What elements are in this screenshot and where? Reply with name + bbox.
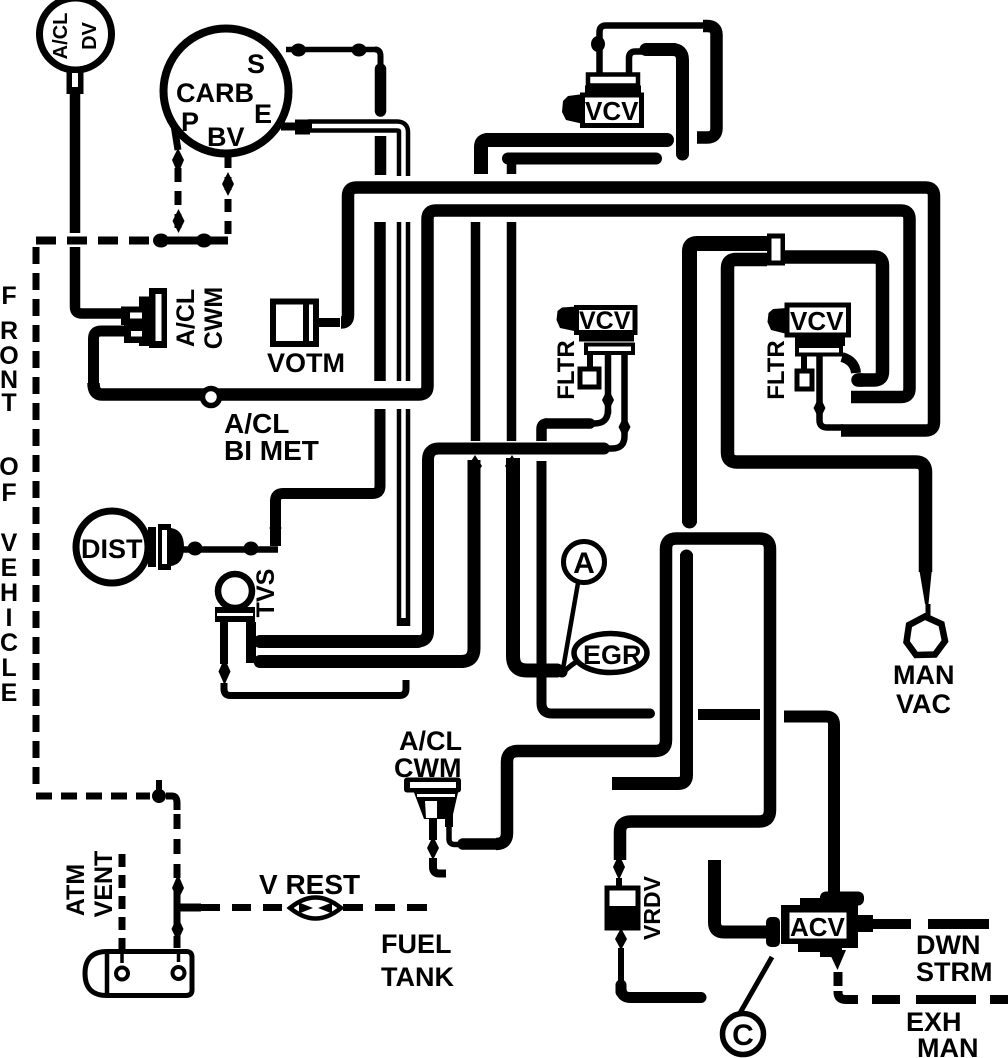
svg-text:A/CL: A/CL [399, 726, 462, 756]
svg-text:H: H [0, 579, 18, 607]
svg-text:E: E [1, 554, 18, 582]
svg-text:VRDV: VRDV [639, 875, 665, 940]
svg-text:O: O [0, 453, 19, 481]
svg-text:ACV: ACV [790, 912, 846, 942]
svg-text:A/CL: A/CL [50, 13, 72, 60]
svg-text:I: I [6, 604, 13, 632]
svg-text:VCV: VCV [790, 306, 844, 336]
svg-text:MAN: MAN [893, 660, 955, 690]
svg-text:F: F [1, 479, 16, 507]
svg-text:VCV: VCV [585, 96, 639, 126]
svg-text:V REST: V REST [259, 869, 360, 900]
svg-text:VAC: VAC [896, 689, 951, 719]
svg-text:FLTR: FLTR [763, 340, 790, 400]
svg-text:EGR: EGR [583, 640, 642, 670]
svg-text:C: C [732, 1019, 754, 1052]
svg-text:CARB: CARB [176, 78, 254, 108]
svg-text:V: V [1, 529, 18, 557]
svg-text:S: S [247, 49, 265, 79]
svg-text:CWM: CWM [200, 287, 228, 349]
svg-text:MAN: MAN [917, 1033, 979, 1058]
svg-text:E: E [1, 679, 18, 707]
svg-text:FUEL: FUEL [381, 929, 452, 959]
svg-text:FLTR: FLTR [553, 340, 580, 400]
svg-text:R: R [0, 317, 18, 345]
svg-text:VENT: VENT [90, 851, 118, 918]
svg-text:DWN: DWN [916, 930, 980, 960]
svg-text:F: F [1, 282, 16, 310]
svg-text:STRM: STRM [916, 957, 993, 987]
svg-text:TVS: TVS [252, 569, 280, 618]
svg-text:VCV: VCV [579, 307, 631, 335]
svg-text:A: A [573, 547, 595, 580]
svg-text:BV: BV [207, 122, 245, 152]
svg-text:TANK: TANK [381, 962, 454, 992]
svg-text:C: C [0, 629, 18, 657]
svg-text:BI MET: BI MET [224, 435, 319, 466]
svg-text:DV: DV [79, 21, 101, 49]
svg-text:T: T [1, 389, 16, 417]
svg-text:VOTM: VOTM [267, 348, 345, 378]
svg-text:E: E [254, 99, 272, 129]
svg-text:ATM: ATM [62, 864, 90, 916]
svg-text:L: L [1, 654, 16, 682]
svg-text:P: P [181, 107, 199, 137]
svg-text:A/CL: A/CL [172, 289, 200, 347]
svg-text:DIST: DIST [81, 534, 143, 564]
